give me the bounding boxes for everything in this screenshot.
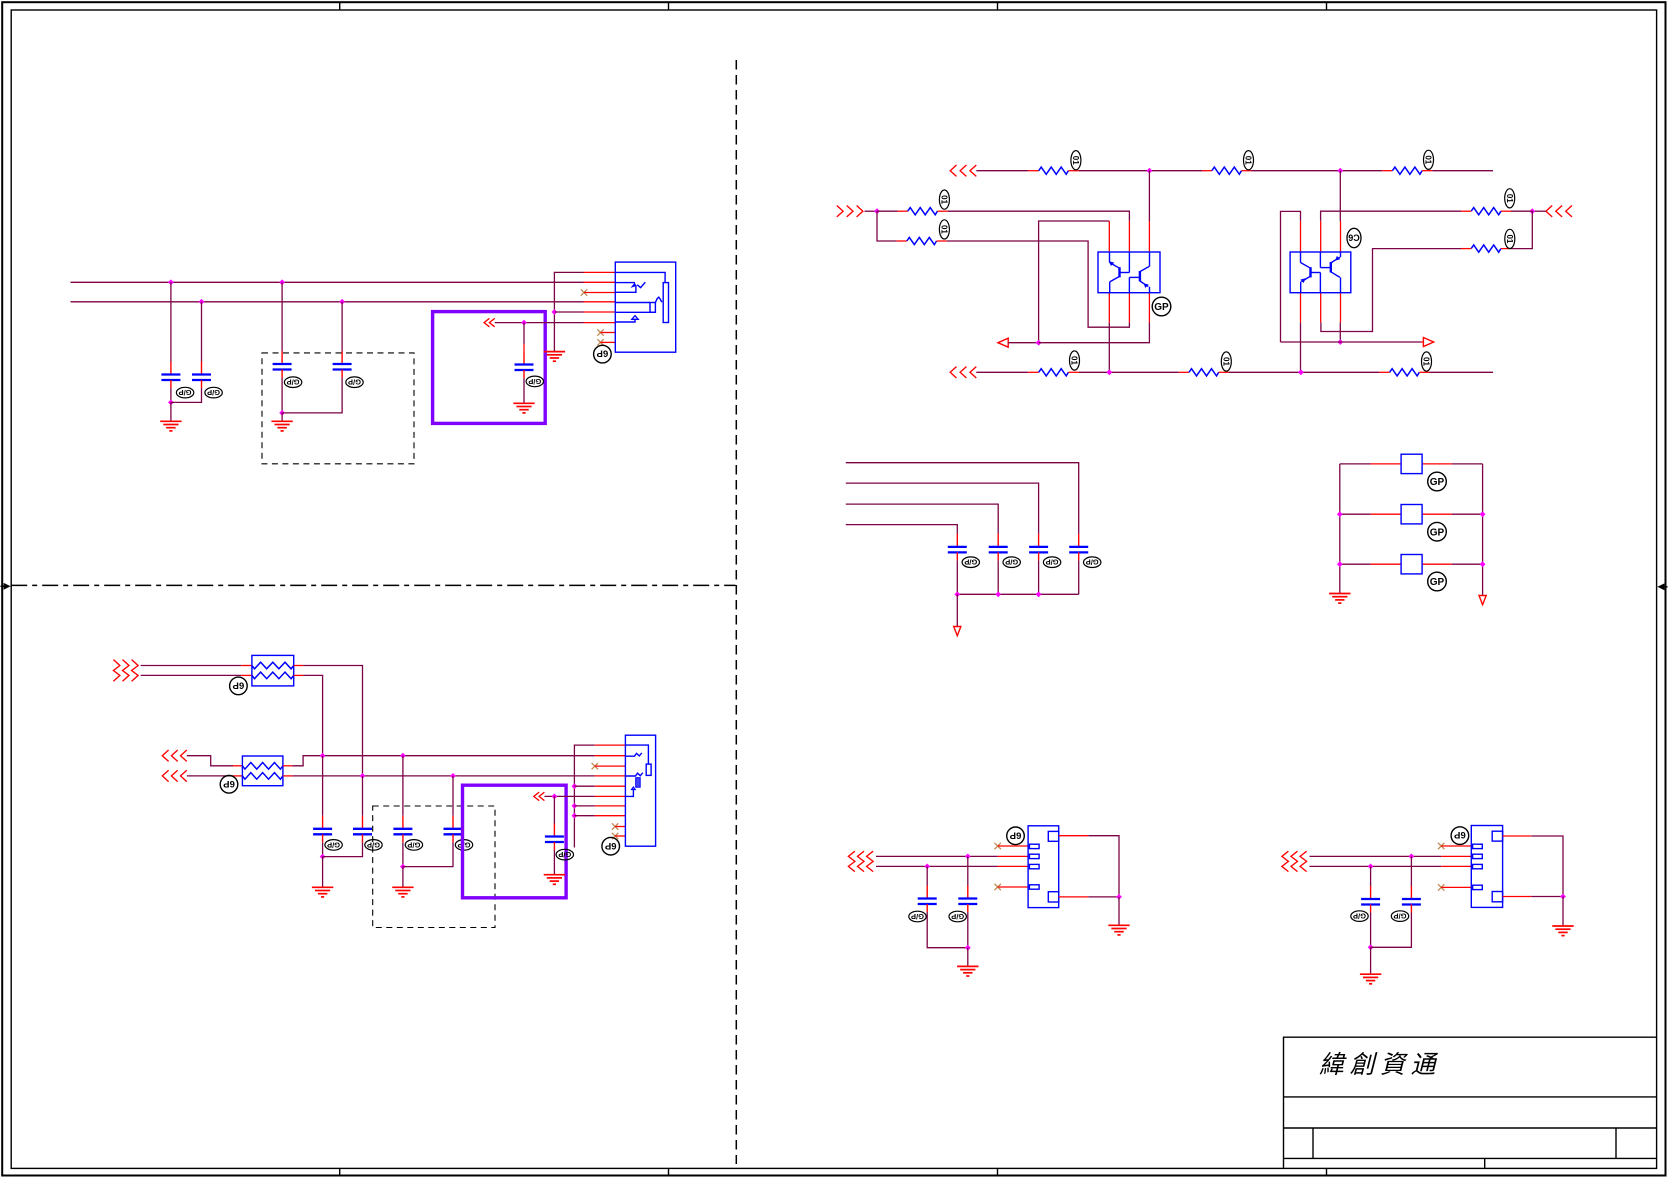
title block divider row1 xyxy=(1284,1096,1657,1098)
label C5 G/P xyxy=(526,376,543,387)
transistor Q2 pins xyxy=(1301,221,1341,323)
wire C5 drop xyxy=(523,323,525,344)
wire Q2 to bottom bus xyxy=(1300,322,1302,372)
node c1 row1 cap xyxy=(965,854,971,860)
node right rail row2 xyxy=(1480,511,1486,517)
wire to ground C xyxy=(402,867,404,888)
wire CC lower xyxy=(402,842,404,866)
output arrow right xyxy=(1421,341,1423,343)
node top bus Q1 xyxy=(1147,168,1153,174)
wire mid stub xyxy=(865,210,878,212)
ground G3 xyxy=(513,403,534,413)
connector J2 pin6 arm xyxy=(625,789,633,796)
connector J3 mount tab bottom xyxy=(1048,892,1058,902)
capacitor CC xyxy=(393,816,412,843)
node common CB1 xyxy=(954,591,960,597)
wire C3 drop xyxy=(281,282,283,351)
title block outline xyxy=(1284,1037,1657,1168)
wire row4 to pack2 xyxy=(187,775,233,777)
capacitor C1 xyxy=(161,362,180,389)
resistor R1 xyxy=(1028,170,1039,172)
wire J3 shield bottom xyxy=(1059,896,1089,898)
wire Q2 collector down xyxy=(1339,322,1341,342)
label RP2 6P xyxy=(220,776,238,794)
capacitor CI xyxy=(1402,886,1421,913)
transistor Q1 body xyxy=(1098,252,1160,293)
node pin8 tap xyxy=(572,813,578,819)
wire CB4 lower xyxy=(1078,560,1080,594)
connector J3 pin tab2 xyxy=(1029,854,1039,858)
ground GI xyxy=(1360,974,1381,984)
wire jumper left rail xyxy=(1339,464,1341,594)
connector J1 ring contact xyxy=(615,302,650,304)
connector J1 switch pin2 xyxy=(615,282,635,284)
connector J4 pin tab3 xyxy=(1473,864,1483,868)
power arrow down xyxy=(954,627,961,636)
port chevrons in box2 xyxy=(534,792,539,800)
capacitor C3 xyxy=(273,351,292,378)
wire row3 jog to pack2 xyxy=(187,756,233,766)
capacitor C2 xyxy=(192,362,211,389)
label R2 xyxy=(1244,151,1254,170)
wire C1 lower xyxy=(170,388,172,402)
resistor R7 xyxy=(1501,210,1511,212)
wire CF drop xyxy=(926,866,928,885)
label CB4 G/P xyxy=(1084,557,1101,568)
label J4 6P xyxy=(1451,827,1469,845)
label CE G/P xyxy=(556,849,573,860)
resistor pack RP1 element2 xyxy=(252,672,294,679)
resistor R8 xyxy=(1501,248,1511,250)
horizontal dash-dot section divider xyxy=(11,584,735,586)
wire arrow line right xyxy=(1281,341,1422,343)
node C1-C2 join xyxy=(168,400,174,406)
wire CH lower xyxy=(1370,913,1372,948)
wire rbranch2 to Q2 xyxy=(1321,249,1461,332)
no-connect J2 pin3 xyxy=(592,763,598,769)
wire C4 drop xyxy=(341,302,343,351)
label J3 6P xyxy=(1007,827,1025,845)
output arrow left xyxy=(998,338,1008,347)
label CB1 G/P xyxy=(962,557,979,568)
wire J2 pin8 feed xyxy=(574,815,594,817)
resistor pack RP1 body xyxy=(252,655,294,686)
node common CB2 xyxy=(995,591,1001,597)
resistor pack RP2 element2 xyxy=(242,773,283,780)
wire arrow line xyxy=(1008,342,1038,344)
node left rail row2 xyxy=(1337,511,1343,517)
node arrow junction right xyxy=(1337,339,1343,345)
wire bottom bus seg2 xyxy=(1079,371,1179,373)
wire branch1 to Q1 base xyxy=(948,211,1130,221)
wire C3 lower xyxy=(281,378,283,413)
wire row2 to pack xyxy=(141,674,241,676)
node row3-CC xyxy=(400,753,406,759)
port chevrons in box1 xyxy=(484,318,489,326)
wire branch2 seg1 xyxy=(877,211,897,241)
label R9 xyxy=(1424,150,1434,169)
dashed option box 1 xyxy=(262,353,414,464)
input chevrons <<< pair2 xyxy=(1282,851,1289,871)
wire c2 row2 xyxy=(1310,865,1442,867)
wire bank line2 xyxy=(846,483,1039,534)
resistor R10 xyxy=(1379,371,1389,373)
label R1 xyxy=(1071,151,1081,170)
ground GA xyxy=(312,887,333,897)
wire to ground J xyxy=(1562,897,1564,927)
label JP2 GP xyxy=(1428,522,1447,541)
wire c1 row2 xyxy=(876,865,998,867)
node top bus Q2 xyxy=(1337,168,1343,174)
wire right stub xyxy=(1532,210,1546,212)
no-connect pin3 xyxy=(581,289,587,295)
ground GF xyxy=(957,966,978,976)
no-connect J2 pin10 xyxy=(612,833,618,839)
wire top bus seg3 xyxy=(1251,170,1382,172)
node CH-CI join xyxy=(1368,944,1374,950)
wire bus1 xyxy=(71,281,584,283)
node row4-CD xyxy=(450,773,456,779)
connector J3 pin tab4 xyxy=(1029,885,1039,889)
capacitor CB3 xyxy=(1029,534,1048,561)
label R5 xyxy=(1070,351,1080,370)
node common CB3 xyxy=(1036,591,1042,597)
wire J1 pin1 feed xyxy=(554,272,583,351)
left margin fold arrow xyxy=(1,583,11,590)
node CC-CD join xyxy=(400,864,406,870)
capacitor CH xyxy=(1361,886,1380,913)
border tick bottom 3 xyxy=(997,1168,999,1175)
label CD G/P xyxy=(455,840,472,851)
resistor R2 xyxy=(1202,170,1212,172)
wire top bus seg4 xyxy=(1432,170,1493,172)
connector J3 pin tab3 xyxy=(1029,864,1039,868)
node C3-C4 join xyxy=(279,410,285,416)
no-connect J4 pin4 xyxy=(1438,884,1444,890)
wire C1 drop xyxy=(170,282,172,361)
capacitor CE xyxy=(545,824,564,851)
label Q2 C6 xyxy=(1347,228,1361,247)
wire bottom bus seg4 xyxy=(1430,371,1494,373)
label CI G/P xyxy=(1391,911,1408,922)
wire J3 shield top xyxy=(1059,835,1089,837)
connector J4 mount tab bottom xyxy=(1492,892,1502,902)
label R8 xyxy=(1505,229,1515,248)
title block divider row2 xyxy=(1284,1127,1657,1129)
input chevrons <<< row4 xyxy=(162,770,168,781)
node pin5 tap xyxy=(552,309,558,315)
jumper JP2 body xyxy=(1401,505,1422,524)
node bus1-C3 xyxy=(279,279,285,285)
resistor pack RP2 body xyxy=(242,756,283,786)
wire CI drop xyxy=(1410,856,1412,886)
node CA-CB join xyxy=(320,854,326,860)
wire bank line1 xyxy=(846,463,1079,534)
connector J4 pin tab4 xyxy=(1473,885,1483,889)
capacitor CF xyxy=(918,886,937,913)
label R10 xyxy=(1422,352,1432,371)
wire to ground I xyxy=(1370,947,1372,974)
label R3 xyxy=(939,190,949,209)
transistor Q2b symbol xyxy=(1320,252,1340,293)
connector J2 switch pin4 xyxy=(625,773,642,776)
wire Q1 bottom to bus xyxy=(1108,322,1110,372)
connector J1 spring xyxy=(655,297,662,302)
wire CA drop xyxy=(322,756,324,816)
wire bottom bus seg3 xyxy=(1229,371,1380,373)
wire CB1 lower xyxy=(956,560,958,594)
wire branch2 to Q1 emitter xyxy=(947,241,1130,327)
capacitor CD xyxy=(444,816,463,843)
border tick top 1 xyxy=(339,2,341,10)
wire rbranch2 seg1 xyxy=(1511,211,1532,248)
dashed option box 2 xyxy=(373,806,495,928)
border tick top 4 xyxy=(1326,2,1328,10)
label CC G/P xyxy=(405,840,422,851)
input chevrons <<< bottom bus xyxy=(950,367,956,378)
wire port to pin6 xyxy=(495,322,584,324)
node CF-CG join xyxy=(965,945,971,951)
transistor Q2a symbol xyxy=(1301,252,1321,293)
wire Q1 top feed xyxy=(1148,171,1150,221)
connector J4 pin tab1 xyxy=(1473,844,1483,848)
capacitor CB1 xyxy=(948,534,967,561)
capacitor CB4 xyxy=(1069,534,1088,561)
jumper JP1 body xyxy=(1401,454,1422,473)
input chevrons <<< right xyxy=(1546,206,1552,217)
label Q1 GP xyxy=(1152,297,1171,316)
input chevrons <<< row3 xyxy=(162,750,168,761)
label CA G/P xyxy=(325,840,342,851)
connector J3 body xyxy=(1028,826,1059,908)
resistor pack RP2 element1 xyxy=(242,763,283,770)
wire to ground2 xyxy=(281,413,283,421)
capacitor CB xyxy=(353,816,372,843)
purple module box 2 xyxy=(463,785,567,898)
label JP3 GP xyxy=(1428,572,1447,591)
node mid split xyxy=(874,208,880,214)
wire jumper row3 xyxy=(1340,563,1371,565)
wire J2 pin7 feed xyxy=(574,805,594,807)
wire to ground F xyxy=(967,948,969,967)
connector J3 mount tab top xyxy=(1048,831,1058,841)
purple module box 1 xyxy=(433,312,546,424)
border tick bottom 2 xyxy=(668,1168,670,1175)
node CE tap xyxy=(552,794,558,800)
wire CE drop xyxy=(553,796,555,823)
node row4-CB xyxy=(360,773,366,779)
wire CG lower xyxy=(967,912,969,948)
resistor R3 xyxy=(898,210,908,212)
border tick bottom 4 xyxy=(1326,1168,1328,1175)
connector J1 pin6 arm xyxy=(615,319,635,322)
input chevrons <<< pair1 xyxy=(848,851,855,871)
wire CE lower xyxy=(553,850,555,875)
border tick bottom 1 xyxy=(339,1168,341,1175)
wire CC drop xyxy=(402,756,404,816)
no-connect J3 pin4 xyxy=(995,884,1001,890)
connector J3 pin tab1 xyxy=(1029,844,1039,848)
node shield join 2 xyxy=(1560,894,1566,900)
connector J2 hatched contact xyxy=(636,778,641,788)
wire J2 pin1 feed xyxy=(574,745,594,847)
capacitor C5 xyxy=(515,352,534,379)
resistor R4 xyxy=(897,240,907,242)
wire c2 row1 xyxy=(1310,855,1442,857)
label CH G/P xyxy=(1351,911,1368,922)
svg-text:緯創資通: 緯創資通 xyxy=(1319,1051,1441,1079)
wire Q2 collector jumper xyxy=(1281,211,1301,342)
wire jumper right rail xyxy=(1482,464,1484,596)
wire common tail xyxy=(956,594,958,626)
ground G1 xyxy=(160,421,181,431)
node arrow junction xyxy=(1036,340,1042,346)
capacitor CG xyxy=(958,886,977,913)
wire row4 net xyxy=(283,775,293,777)
wire Q2 top feed xyxy=(1339,171,1341,221)
node bus1-C1 xyxy=(168,279,174,285)
right margin fold arrow xyxy=(1657,583,1667,590)
wire jumper row1 xyxy=(1340,463,1371,465)
wire CB drop xyxy=(362,776,364,816)
transistor Q2 body xyxy=(1290,252,1351,293)
wire c1 row1 xyxy=(876,855,998,857)
wire J4 shield bottom xyxy=(1503,896,1532,898)
wire bank common xyxy=(957,593,1078,595)
wire CI lower L xyxy=(1371,913,1412,948)
label CB2 G/P xyxy=(1003,557,1020,568)
no-connect J2 pin9 xyxy=(612,823,618,829)
transistor Q1 pins xyxy=(1109,221,1149,323)
svg-text:C6: C6 xyxy=(1348,233,1360,243)
node shield join xyxy=(1116,894,1122,900)
transistor Q1b symbol xyxy=(1129,252,1149,293)
label J1 6P xyxy=(594,345,612,363)
connector J1 tip contact xyxy=(615,272,665,282)
connector J4 pin tab2 xyxy=(1473,854,1483,858)
label JP1 GP xyxy=(1428,472,1447,491)
title block divider row3 xyxy=(1284,1157,1657,1159)
wire row1 to pack xyxy=(141,665,241,667)
wire to ground1 xyxy=(170,402,172,421)
resistor pack RP1 element1 xyxy=(252,662,294,669)
wire port to pin6 xyxy=(544,795,594,797)
wire J4 shield top xyxy=(1503,835,1532,837)
ground GH xyxy=(1108,925,1129,935)
node c2 row1 cap xyxy=(1409,854,1415,860)
node row3-CA xyxy=(320,753,326,759)
wire top bus seg2 xyxy=(1079,170,1202,172)
border tick top 2 xyxy=(668,2,670,10)
wire jumper row2 xyxy=(1340,513,1371,515)
node left rail row3 xyxy=(1337,561,1343,567)
label C2 G/P xyxy=(205,387,222,398)
no-connect J4 pin1 xyxy=(1438,843,1444,849)
wire CF lower L xyxy=(927,912,968,948)
title block vertical divider a xyxy=(1312,1128,1314,1158)
label R7 xyxy=(1505,189,1515,208)
label CB G/P xyxy=(365,840,382,851)
label RP1 6P xyxy=(230,677,248,695)
connector J2 switch pin2 xyxy=(625,753,641,756)
wire CD drop xyxy=(452,776,454,816)
wire bank line3 xyxy=(846,504,998,534)
node right split xyxy=(1529,208,1535,214)
no-connect J3 pin1 xyxy=(995,843,1001,849)
node pin5 tap xyxy=(572,783,578,789)
connector J1 sleeve bar xyxy=(663,283,668,323)
label R4 xyxy=(939,220,949,239)
wire row2 out xyxy=(294,674,303,676)
connector J4 mount tab top xyxy=(1492,831,1502,841)
title block vertical divider b xyxy=(1615,1128,1617,1158)
wire bottom bus seg1 xyxy=(976,371,1028,373)
label R6 xyxy=(1221,352,1231,371)
wire Q1 collector gamma xyxy=(1039,221,1110,343)
ground jumper left xyxy=(1329,594,1350,604)
ground GJ xyxy=(1552,926,1573,936)
label CF G/P xyxy=(909,911,926,922)
wire J2 pin5 feed xyxy=(574,785,594,787)
wire CA lower xyxy=(322,842,324,856)
label C3 G/P xyxy=(284,377,301,388)
border tick top 3 xyxy=(997,2,999,10)
wire CD lower L xyxy=(403,842,453,866)
node bus2-C2 xyxy=(199,299,205,305)
node c1 row2 cap xyxy=(924,864,930,870)
wire branch1 seg1 xyxy=(877,210,898,212)
wire arrow line to Q1 xyxy=(1039,322,1150,342)
wire CB3 lower xyxy=(1038,560,1040,594)
resistor R6 xyxy=(1179,371,1189,373)
wire CH drop xyxy=(1370,866,1372,886)
resistor R5 xyxy=(1028,371,1039,373)
label C4 G/P xyxy=(346,377,363,388)
jumper JP3 body xyxy=(1401,555,1422,574)
wire C2 lower L xyxy=(171,388,202,402)
resistor R9 xyxy=(1382,170,1392,172)
node bus2-C4 xyxy=(339,299,345,305)
input chevrons <<< top bus xyxy=(950,165,956,176)
node C5 tap xyxy=(521,320,527,326)
label C1 G/P xyxy=(176,387,193,398)
ground GE xyxy=(544,875,565,885)
connector J4 body xyxy=(1471,826,1502,908)
wire J1 pin5 feed xyxy=(554,311,583,313)
input chevrons >>> row12 xyxy=(113,660,120,682)
node c2 row2 cap xyxy=(1368,864,1374,870)
wire row1 out xyxy=(294,665,303,667)
node pin7 tap xyxy=(572,803,578,809)
capacitor CB2 xyxy=(989,534,1008,561)
capacitor C4 xyxy=(333,351,352,378)
capacitor CA xyxy=(313,816,332,843)
wire C4 lower L xyxy=(282,378,342,413)
node bottom bus Q1 xyxy=(1106,369,1112,375)
wire CG drop xyxy=(967,856,969,885)
wire top bus seg1 xyxy=(976,170,1028,172)
wire rbranch1 to Q2 middle pin xyxy=(1321,211,1461,221)
connector J1 body xyxy=(615,262,675,352)
ground G4 xyxy=(544,352,565,362)
node right rail row3 xyxy=(1480,561,1486,567)
wire C2 drop xyxy=(201,302,203,362)
vertical dashed section divider xyxy=(735,60,737,1164)
connector J1 switch pin3 arm xyxy=(615,285,636,292)
wire CB lower L xyxy=(323,842,363,856)
label J2 6P xyxy=(602,837,620,855)
wire rbranch1 seg1 xyxy=(1511,210,1532,212)
